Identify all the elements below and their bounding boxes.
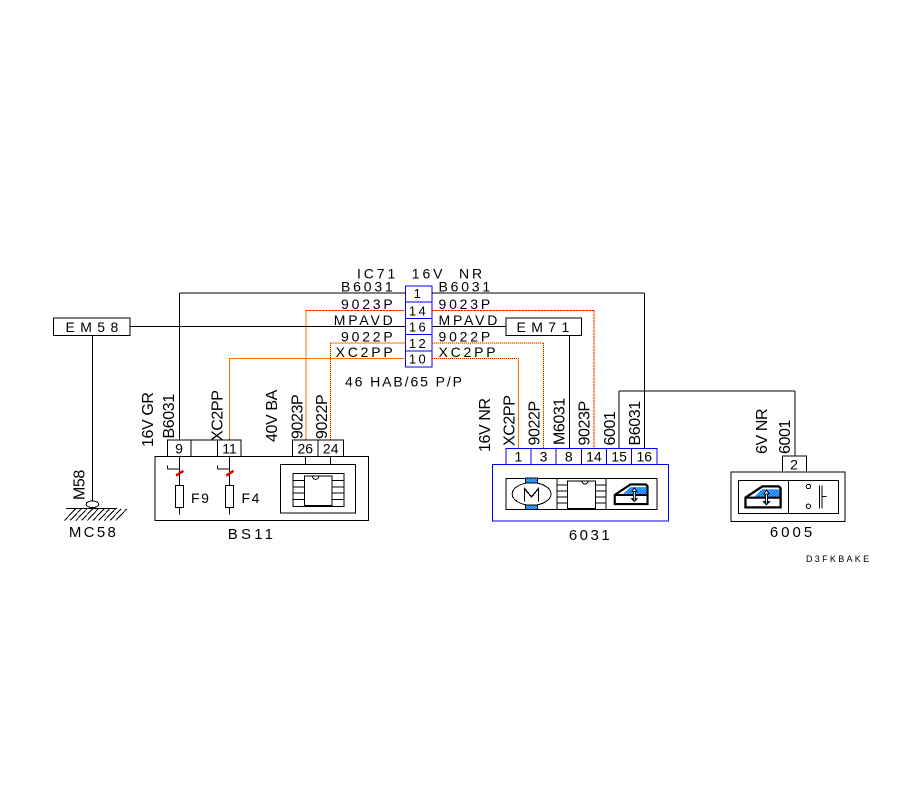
svg-text:EM58: EM58	[66, 319, 124, 335]
svg-text:B6031: B6031	[439, 279, 493, 295]
svg-text:14: 14	[409, 304, 428, 319]
svg-text:26: 26	[298, 441, 314, 457]
svg-text:M6031: M6031	[552, 398, 569, 445]
svg-text:9023P: 9023P	[341, 296, 395, 312]
svg-text:9022P: 9022P	[439, 329, 493, 345]
svg-text:B6031: B6031	[161, 394, 178, 439]
svg-text:1: 1	[414, 286, 424, 301]
svg-text:2: 2	[790, 457, 798, 473]
svg-text:9023P: 9023P	[577, 401, 594, 445]
svg-text:MC58: MC58	[69, 524, 118, 541]
svg-text:9022P: 9022P	[314, 395, 331, 439]
svg-text:BS11: BS11	[228, 526, 276, 543]
svg-text:XC2PP: XC2PP	[210, 391, 227, 441]
svg-text:6001: 6001	[602, 411, 619, 445]
svg-text:6005: 6005	[770, 524, 815, 541]
svg-text:14: 14	[586, 449, 602, 465]
svg-text:9022P: 9022P	[527, 401, 544, 445]
svg-text:8: 8	[565, 449, 573, 465]
svg-text:9023P: 9023P	[290, 395, 307, 439]
svg-text:B6031: B6031	[627, 401, 644, 446]
svg-text:M58: M58	[72, 470, 89, 500]
svg-text:XC2PP: XC2PP	[439, 344, 499, 360]
svg-text:EM71: EM71	[517, 319, 575, 335]
svg-text:B6031: B6031	[341, 279, 395, 295]
svg-text:6031: 6031	[569, 527, 612, 544]
svg-text:16V GR: 16V GR	[140, 392, 157, 447]
svg-text:F4: F4	[242, 490, 262, 506]
svg-text:D3FKBAKE: D3FKBAKE	[806, 554, 871, 564]
svg-text:9: 9	[175, 441, 183, 457]
svg-text:6V NR: 6V NR	[754, 409, 771, 454]
svg-text:16: 16	[636, 449, 652, 465]
svg-text:40V BA: 40V BA	[264, 389, 281, 442]
svg-text:24: 24	[323, 441, 339, 457]
svg-text:XC2PP: XC2PP	[336, 344, 396, 360]
svg-text:MPAVD: MPAVD	[439, 312, 501, 328]
svg-text:9022P: 9022P	[341, 329, 395, 345]
svg-text:6001: 6001	[777, 420, 794, 454]
svg-text:16: 16	[409, 320, 428, 335]
svg-text:F9: F9	[191, 490, 211, 506]
svg-text:MPAVD: MPAVD	[334, 312, 396, 328]
svg-text:XC2PP: XC2PP	[502, 396, 519, 446]
svg-text:16V NR: 16V NR	[477, 398, 494, 452]
svg-text:15: 15	[611, 449, 627, 465]
svg-text:46 HAB/65 P/P: 46 HAB/65 P/P	[345, 374, 464, 390]
svg-text:11: 11	[222, 441, 237, 457]
svg-text:1: 1	[515, 449, 523, 465]
svg-text:12: 12	[409, 336, 428, 351]
svg-text:9023P: 9023P	[439, 296, 493, 312]
svg-text:3: 3	[540, 449, 548, 465]
svg-text:10: 10	[409, 352, 428, 367]
